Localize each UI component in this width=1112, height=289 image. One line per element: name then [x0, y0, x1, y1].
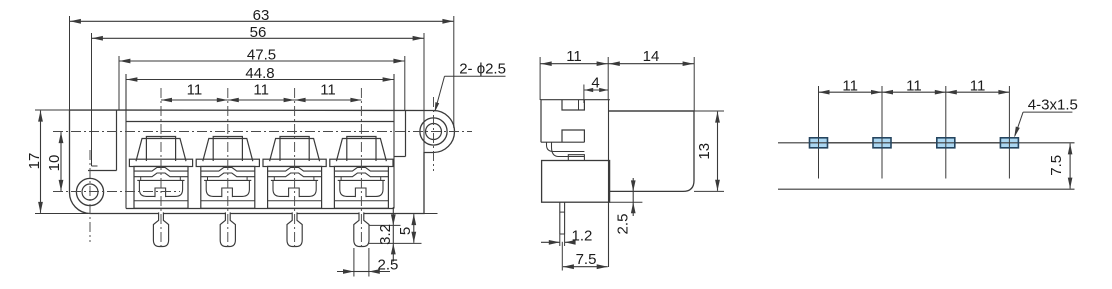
dimension 44.8	[125, 74, 127, 110]
terminal position 3	[270, 139, 320, 162]
side: rear body top edge	[609, 110, 695, 112]
svg-text:11: 11	[187, 82, 203, 99]
dimension 4	[583, 85, 585, 104]
svg-text:56: 56	[250, 24, 267, 41]
board line through pads (repeat over pads)	[810, 142, 1019, 144]
recess left wall / 44.8 extension	[125, 74, 127, 209]
footprint pad 2 centerline	[881, 86, 883, 179]
dimension 56 body width	[91, 33, 93, 166]
svg-text:3.2: 3.2	[377, 224, 394, 245]
footprint pad 4 fill	[1000, 138, 1018, 148]
centerline through left mounting hole (horizontal)	[53, 191, 180, 193]
dimension 10 hole offset	[60, 132, 62, 191]
footprint pad 4 centerline	[1008, 86, 1010, 179]
dimension 2.5 pin width	[353, 248, 355, 277]
svg-text:11: 11	[566, 48, 582, 65]
svg-text:14: 14	[643, 48, 660, 65]
body outline with mounting flanges	[69, 110, 454, 214]
recess bottom line	[126, 208, 394, 210]
svg-text:63: 63	[253, 7, 270, 24]
footprint pad 4 border (3x1.5 slot)	[1000, 138, 1018, 148]
svg-text:47.5: 47.5	[247, 47, 276, 64]
solder pin 4	[354, 212, 369, 246]
vertical centerline left hole	[89, 150, 91, 242]
dimension 7.5 pin to back	[561, 242, 563, 271]
vertical centerline terminal 1	[160, 88, 162, 250]
right mounting hole φ2.5	[426, 124, 442, 140]
left flange top edge	[88, 170, 117, 172]
left mounting boss circle	[76, 178, 103, 205]
right step horizontal	[394, 156, 406, 158]
svg-text:44.8: 44.8	[245, 65, 274, 82]
vertical centerline right hole	[433, 97, 435, 171]
svg-text:5: 5	[397, 227, 414, 235]
left step vertical	[116, 110, 118, 171]
dimension 11 pitch x3 (front)	[161, 99, 228, 101]
svg-text:11: 11	[970, 78, 986, 95]
vertical centerline terminal 2	[227, 88, 229, 250]
footprint pad 1 centerline	[818, 86, 820, 179]
side: solder pin	[560, 202, 565, 234]
terminal position 4	[336, 139, 386, 162]
svg-text:4-3x1.5: 4-3x1.5	[1028, 97, 1078, 114]
footprint: board edge line lower	[778, 188, 1075, 190]
dimension 13 rear body height	[694, 110, 724, 112]
terminal position 2	[203, 139, 253, 162]
dimension 5 pin length	[424, 213, 438, 215]
solder pin 1	[153, 212, 168, 246]
dimension 3.2 pin shoulder	[369, 224, 401, 226]
footprint pad 2 border (3x1.5 slot)	[873, 138, 891, 148]
footprint pad 3 centerline	[945, 86, 947, 179]
footprint pad 2 fill	[873, 138, 891, 148]
side: vertical boundary x=608.5	[608, 100, 610, 268]
svg-text:4: 4	[591, 75, 599, 92]
inner recess top edge (44.8)	[126, 121, 394, 123]
recess right wall / 44.8 extension	[393, 74, 395, 209]
svg-text:11: 11	[253, 82, 269, 99]
svg-text:7.5: 7.5	[576, 251, 597, 268]
footprint pad 3 fill	[937, 138, 955, 148]
side: upper front block	[541, 100, 610, 143]
svg-text:1.2: 1.2	[572, 228, 593, 245]
dimension 17 overall height	[35, 109, 70, 111]
left mounting hole φ2.5	[82, 184, 98, 200]
side: wire funnel curves	[547, 142, 585, 151]
right step vertical	[405, 110, 407, 157]
svg-text:13: 13	[696, 143, 713, 160]
svg-text:17: 17	[26, 153, 43, 170]
side: lower base block	[542, 161, 610, 203]
side: slot divider line	[578, 100, 580, 110]
svg-text:11: 11	[320, 82, 336, 99]
dimension 63 overall width	[69, 16, 71, 110]
svg-text:11: 11	[842, 78, 858, 95]
dimension 11 (side depth front) and 14 (side depth rear)	[539, 57, 541, 100]
footprint pad 1 fill	[810, 138, 828, 148]
dimension 47.5	[118, 56, 120, 110]
side: screw slot notch top	[562, 100, 584, 110]
vertical centerline terminal 4	[360, 88, 362, 250]
side: clamp notch middle	[562, 130, 584, 142]
footprint: board edge line through pads	[778, 142, 1075, 144]
svg-text:10: 10	[46, 155, 63, 172]
dimension 2.5 base step	[610, 201, 643, 203]
vertical centerline terminal 3	[294, 88, 296, 250]
svg-text:11: 11	[906, 78, 922, 95]
right mounting boss circle	[420, 118, 447, 145]
footprint pad 1 border (3x1.5 slot)	[810, 138, 828, 148]
footprint pad 3 border (3x1.5 slot)	[937, 138, 955, 148]
solder pin 2	[220, 212, 235, 246]
svg-text:7.5: 7.5	[1048, 155, 1065, 176]
svg-text:2.5: 2.5	[378, 257, 399, 274]
dimension 7.5 row offset	[1069, 143, 1071, 188]
svg-text:2- ϕ2.5: 2- ϕ2.5	[459, 61, 506, 78]
centerline through right mounting hole (horizontal)	[53, 131, 472, 133]
dimension 11 pitch x3 (footprint)	[819, 91, 883, 93]
solder pin 3	[287, 212, 302, 246]
svg-text:2.5: 2.5	[615, 214, 632, 235]
dimension 1.2 pin thickness	[559, 234, 561, 246]
terminal position 1	[136, 139, 186, 162]
side: rear body block	[609, 111, 695, 191]
